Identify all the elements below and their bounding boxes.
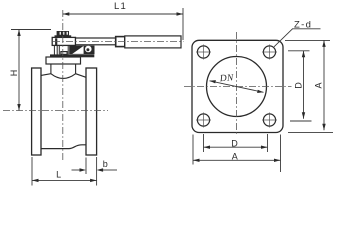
stem bolt below block xyxy=(54,45,57,54)
dimension A bottom extension left xyxy=(192,135,194,165)
bolt hole bottom-left xyxy=(197,114,209,126)
latch roller xyxy=(85,46,92,53)
packing gland xyxy=(61,52,67,55)
svg-text:A: A xyxy=(232,151,238,161)
latch base dark bar xyxy=(50,54,94,57)
dimension A vertical line xyxy=(323,40,325,130)
bolt hole bottom-left cross xyxy=(196,113,211,128)
dimension A vertical extension bottom xyxy=(288,131,333,133)
handle ferrule xyxy=(116,37,125,47)
right flange xyxy=(86,68,97,155)
Z-d underline xyxy=(292,28,321,30)
DN diameter arrow line xyxy=(210,81,264,93)
dimension A vertical extension top xyxy=(285,39,330,41)
dimension L line xyxy=(32,179,97,181)
dimension D bottom line xyxy=(204,146,268,148)
dimension D vertical extension top xyxy=(288,50,310,52)
dimension D bottom extension right xyxy=(267,134,269,152)
left shoulder line xyxy=(41,74,51,76)
dimension L1 line xyxy=(63,13,183,15)
latch body dark xyxy=(69,46,94,55)
cap slit 1 xyxy=(60,32,61,35)
stem sub-box left line xyxy=(58,45,60,54)
flange horizontal centerline xyxy=(184,86,292,88)
svg-text:L: L xyxy=(56,170,61,180)
mounting plate xyxy=(46,57,81,64)
dimension H line xyxy=(18,30,20,111)
latch roller pin xyxy=(86,48,89,51)
svg-text:D: D xyxy=(293,82,303,89)
H arrow bottom xyxy=(17,104,20,111)
latch triangle window xyxy=(72,46,83,54)
right shoulder line xyxy=(76,74,86,78)
D vert arrow bottom xyxy=(302,112,305,119)
bolt hole top-right cross xyxy=(262,45,277,60)
bore circle DN xyxy=(207,57,267,117)
bolt hole bottom-right xyxy=(263,114,275,126)
A vert arrow bottom xyxy=(322,124,325,131)
knurled nut cap xyxy=(57,31,69,36)
dimension A bottom extension right xyxy=(280,135,282,173)
L arrow left xyxy=(32,179,39,182)
DN arrow left xyxy=(210,80,216,83)
svg-text:L1: L1 xyxy=(114,1,127,12)
dimension D vertical extension bottom xyxy=(290,120,312,122)
D vert arrow top xyxy=(302,51,305,58)
body dome arc xyxy=(51,74,76,79)
dimension b extension xyxy=(85,158,87,175)
b left segment xyxy=(72,169,81,171)
H arrow top xyxy=(17,30,20,37)
dimension L extension left xyxy=(31,157,33,186)
cap slit 3 xyxy=(67,32,68,35)
svg-text:DN: DN xyxy=(219,73,235,84)
D bottom arrow right xyxy=(261,146,268,149)
bolt inside block xyxy=(55,38,57,45)
b right segment xyxy=(103,169,117,171)
dimension D vertical line xyxy=(303,51,305,119)
knurled nut band xyxy=(55,35,72,37)
stem sub-box right line xyxy=(67,45,69,54)
stem head block xyxy=(52,37,75,45)
flange vertical centerline xyxy=(236,32,238,136)
D bottom arrow left xyxy=(204,146,211,149)
DN arrow right xyxy=(257,90,263,93)
L arrow right xyxy=(90,179,97,182)
b arrow left xyxy=(80,168,87,171)
b arrow right xyxy=(97,168,104,171)
L1 arrow left xyxy=(63,12,70,15)
svg-text:A: A xyxy=(314,82,324,88)
valve horizontal centerline xyxy=(3,110,108,112)
cap slit 2 xyxy=(63,32,64,35)
left flange xyxy=(32,68,41,155)
neck right side xyxy=(75,64,77,74)
bolt hole top-left xyxy=(197,46,209,58)
handle grip xyxy=(125,36,181,48)
dimension L extension right xyxy=(96,157,98,186)
bolt hole top-left cross xyxy=(196,45,211,60)
L1 arrow right xyxy=(177,12,184,15)
square flange plate xyxy=(192,40,283,132)
body bottom line xyxy=(41,145,86,149)
dimension D bottom extension left xyxy=(203,134,205,152)
neck left side xyxy=(50,64,52,74)
bolt hole top-right xyxy=(263,46,275,58)
A bottom arrow right xyxy=(274,159,281,162)
svg-text:D: D xyxy=(231,138,238,148)
A bottom arrow left xyxy=(193,159,200,162)
handle centerline xyxy=(53,40,184,42)
stem vertical centerline xyxy=(62,10,64,162)
dimension L1 extension line right xyxy=(182,8,184,40)
handle bar xyxy=(76,38,116,45)
dimension A bottom line xyxy=(193,159,281,161)
A vert arrow top xyxy=(322,40,325,47)
svg-text:H: H xyxy=(9,70,19,77)
Z-d leader xyxy=(274,29,293,47)
dimension H extension line xyxy=(11,29,51,31)
svg-text:b: b xyxy=(103,159,108,169)
bolt hole bottom-right cross xyxy=(262,113,277,128)
